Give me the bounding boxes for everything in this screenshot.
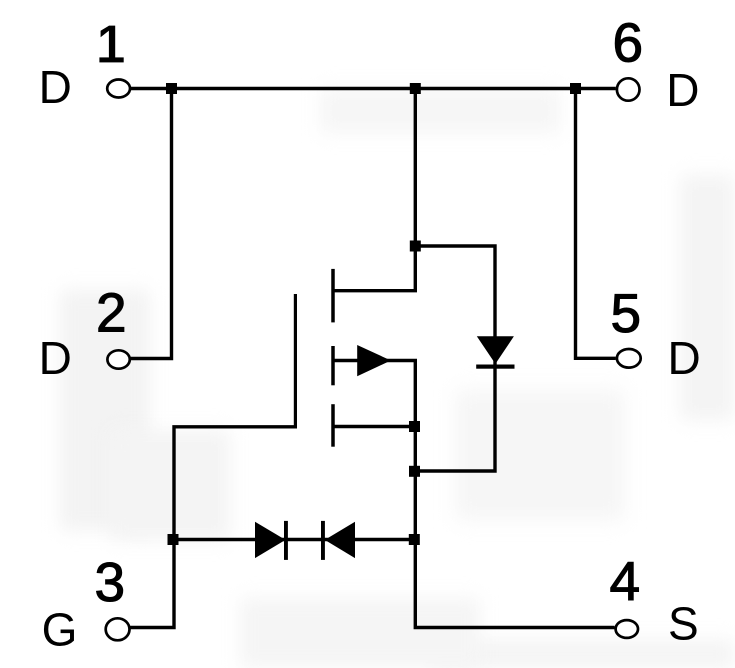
svg-text:D: D bbox=[39, 61, 72, 113]
diode D2 ESD left triangle bbox=[255, 522, 286, 558]
node junction top-middle bbox=[410, 83, 421, 94]
svg-text:D: D bbox=[666, 64, 699, 116]
terminal pin 2 bbox=[107, 350, 129, 368]
node junction diode bottom bbox=[409, 466, 420, 477]
terminal pin 4 bbox=[616, 620, 638, 638]
svg-text:D: D bbox=[668, 332, 701, 384]
node junction source stub bbox=[409, 421, 420, 432]
svg-text:5: 5 bbox=[611, 282, 642, 344]
wire body-diode branch bbox=[414, 246, 495, 471]
svg-text:6: 6 bbox=[613, 12, 644, 74]
diode D3 ESD right triangle bbox=[325, 522, 355, 558]
node junction top-left bbox=[166, 83, 177, 94]
diode D3 cathode bar bbox=[321, 521, 325, 560]
transistor Q1 channel segment source bbox=[331, 404, 335, 447]
transistor Q1 channel segment body bbox=[331, 346, 335, 385]
svg-text:3: 3 bbox=[95, 551, 126, 613]
diode D2 cathode bar bbox=[284, 521, 288, 560]
wire ESD diodes G-S bbox=[174, 538, 414, 541]
wire top rail D1-D6 bbox=[130, 87, 616, 90]
diode D1 body diode triangle bbox=[477, 336, 514, 364]
wire Q1 body stub + source vertical + pin4 wire bbox=[333, 361, 615, 628]
svg-text:D: D bbox=[39, 332, 72, 384]
transistor Q1 channel segment drain bbox=[331, 269, 335, 323]
background artifact patches bbox=[60, 290, 150, 530]
wire gate: gate bar to pin3 bbox=[130, 427, 295, 628]
node junction gate-ESD bbox=[168, 534, 179, 545]
transistor Q1 body arrow bbox=[357, 345, 391, 376]
terminal pin 6 bbox=[617, 78, 640, 100]
node junction source-ESD bbox=[409, 534, 420, 545]
svg-text:2: 2 bbox=[96, 282, 127, 344]
node junction diode top bbox=[410, 241, 421, 252]
svg-text:4: 4 bbox=[610, 550, 641, 612]
terminal pin 1 bbox=[107, 80, 130, 98]
node junction top-right bbox=[570, 83, 581, 94]
wire drain vertical + drain stub of Q1 bbox=[333, 89, 415, 291]
svg-text:S: S bbox=[668, 598, 699, 650]
pin label 1 bbox=[99, 26, 123, 63]
transistor Q1 gate bar bbox=[294, 294, 297, 429]
terminal pin 3 bbox=[106, 618, 130, 640]
wire pin5 to top rail bbox=[576, 89, 616, 359]
wire pin2 to top rail bbox=[130, 89, 172, 359]
wire Q1 source stub bbox=[333, 425, 415, 428]
diode D1 cathode bar bbox=[476, 365, 514, 369]
svg-text:G: G bbox=[42, 604, 78, 656]
terminal pin 5 bbox=[617, 349, 641, 368]
